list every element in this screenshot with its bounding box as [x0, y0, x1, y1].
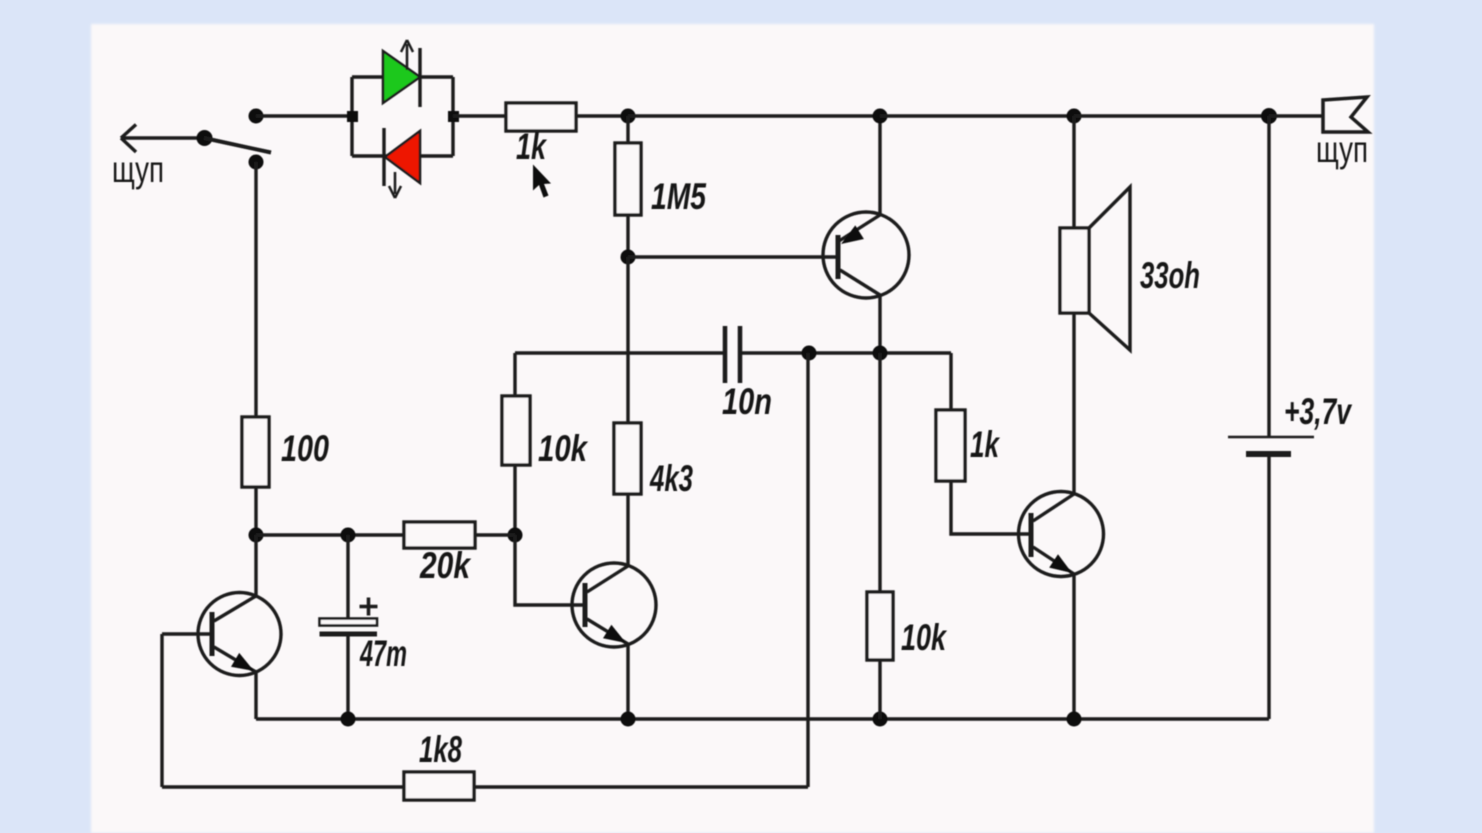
node ground at 10k right — [873, 712, 888, 727]
node ground at 47m — [341, 712, 356, 727]
wire battery negative to ground rail — [1267, 456, 1270, 719]
svg-text:4k3: 4k3 — [649, 458, 693, 499]
svg-text:1k: 1k — [516, 126, 548, 167]
svg-text:+3,7v: +3,7v — [1284, 391, 1353, 432]
wire ground rail — [256, 717, 1269, 720]
wire top rail segment — [880, 114, 1074, 117]
wire feedback riser to mid rail — [806, 353, 809, 787]
probe ЩУП right flag — [1323, 97, 1368, 132]
wire mid rail right of C1 — [740, 351, 951, 354]
node square right of LED block — [448, 111, 459, 122]
wire Q2 collector to R 10k right — [878, 353, 881, 592]
wire Q1 emitter down — [254, 672, 257, 719]
switch SA1 blade — [204, 138, 271, 153]
mouse cursor — [533, 165, 551, 198]
wire R 1M5 to base node — [626, 215, 629, 257]
node R100 / 20k / Q1 collector — [249, 528, 264, 543]
node 20k / 10k junction — [508, 528, 523, 543]
svg-text:33oh: 33oh — [1140, 255, 1200, 296]
svg-text:20k: 20k — [419, 545, 472, 586]
wire top rail from switch node to LED block — [256, 114, 352, 117]
svg-text:1M5: 1M5 — [651, 176, 707, 217]
wire R 100 to node — [254, 487, 257, 535]
wire Q1 base left — [162, 632, 212, 635]
wire bottom feedback left — [162, 785, 404, 788]
transistor Q4 (NPN right) — [1019, 492, 1104, 577]
wire bottom feedback right — [474, 785, 808, 788]
wire top rail node to Q2 emitter — [878, 116, 881, 215]
wire R 10k right to ground — [878, 660, 881, 719]
svg-text:1k8: 1k8 — [419, 729, 462, 770]
wire Q2 collector down — [878, 295, 881, 353]
wire speaker to Q4 collector — [1072, 313, 1075, 494]
wire LED block to R 1k — [453, 114, 506, 117]
wire R 1k right to Q4 base — [951, 481, 1031, 534]
speaker BA1 — [1060, 187, 1130, 350]
node top rail at Q2 — [873, 109, 888, 124]
svg-text:10n: 10n — [722, 381, 772, 422]
resistor R 100 — [242, 417, 269, 487]
wire Q1 collector up — [254, 535, 257, 596]
wire top rail segment — [628, 114, 880, 117]
wire switch node down to R 100 — [254, 162, 257, 417]
resistor R 10k (right) — [867, 592, 893, 660]
transistor Q1 (NPN bottom left) — [198, 593, 281, 676]
switch contact node to lower branch — [249, 155, 264, 170]
node top rail at speaker — [1067, 109, 1082, 124]
node mid rail to 1k8 branch — [802, 346, 817, 361]
wire R 1k to node — [576, 114, 628, 117]
wire node to R 20k — [256, 533, 404, 536]
resistor R 1M5 — [615, 143, 641, 215]
LED VD1 green — [383, 40, 420, 107]
node square left of LED block — [347, 111, 358, 122]
svg-text:47m: 47m — [359, 633, 407, 674]
wire speaker feed — [1072, 116, 1075, 228]
resistor R 4k3 — [614, 423, 641, 494]
wire Q3 emitter down — [626, 644, 629, 719]
wire mid rail left of C1 — [515, 351, 725, 354]
wire top rail segment — [1074, 114, 1269, 117]
resistor R 1k8 — [404, 772, 474, 800]
wire top rail to probe flag — [1269, 114, 1323, 117]
svg-text:10k: 10k — [538, 428, 589, 469]
resistor R 10k (left) — [502, 396, 530, 465]
capacitor C1 10n — [725, 326, 740, 383]
node top rail / 1M5 — [621, 109, 636, 124]
svg-text:щуп: щуп — [1316, 129, 1368, 170]
svg-text:100: 100 — [281, 428, 329, 469]
wire battery positive — [1267, 116, 1270, 437]
svg-text:10k: 10k — [901, 617, 948, 658]
wire node down and to Q3 base — [515, 535, 585, 605]
node top rail at battery — [1261, 108, 1277, 124]
transistor Q3 (NPN middle) — [572, 563, 656, 647]
LED VD2 red — [384, 128, 420, 198]
probe ЩУП left arrow — [121, 125, 204, 153]
node ground at Q4 emitter — [1067, 712, 1082, 727]
wire R 4k3 to Q3 collector — [626, 494, 629, 566]
wire R 20k to node — [475, 533, 515, 536]
wire R 10k left to node — [513, 465, 516, 535]
wire 1M5 node down to R 4k3 — [626, 257, 629, 423]
capacitor C2 47m electrolytic — [320, 535, 378, 719]
resistor R 1k (right) — [936, 410, 965, 481]
node mid rail at Q2 collector — [873, 346, 888, 361]
switch SA1 pole contact — [197, 130, 213, 146]
node 47m top — [341, 528, 356, 543]
wire Q4 emitter down — [1072, 574, 1075, 719]
LED parallel block frame — [352, 77, 453, 156]
battery GB1 — [1228, 437, 1314, 454]
svg-text:щуп: щуп — [112, 149, 164, 190]
resistor R 1k (top) — [506, 103, 576, 131]
resistor R 20k — [404, 522, 475, 548]
switch contact node to top rail — [249, 109, 264, 124]
node ground at Q3 emitter — [621, 712, 636, 727]
wire mid rail corner down to R 1k right — [949, 353, 952, 410]
wire node to R 1M5 — [626, 116, 629, 143]
transistor Q2 (PNP top) — [823, 212, 909, 298]
wire left column from mid rail — [513, 353, 516, 396]
svg-text:1k: 1k — [970, 424, 1001, 465]
wire base branch down — [160, 634, 163, 787]
node base of Q2 — [621, 250, 636, 265]
wire base node to Q2 — [628, 255, 838, 258]
